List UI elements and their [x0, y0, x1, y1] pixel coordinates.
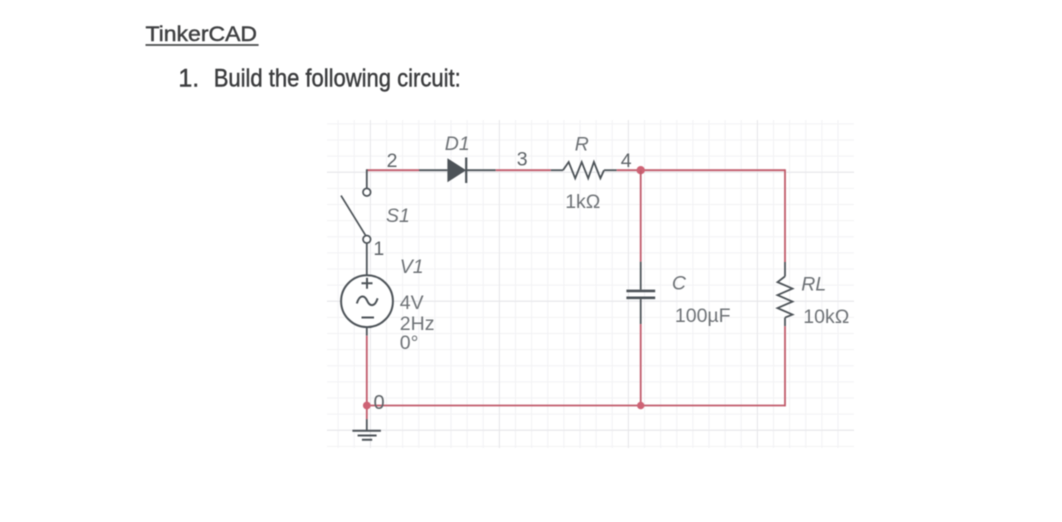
- svg-text:TinkerCAD: TinkerCAD: [146, 23, 258, 46]
- wire: red from node 4 down to capacitor: [640, 170, 642, 262]
- switch S1 lever: [341, 196, 366, 236]
- wire: corner stub down to switch top terminal: [366, 169, 368, 188]
- schematic grid background: [327, 120, 854, 448]
- switch S1 bottom terminal circle: [363, 236, 371, 244]
- wire: red below node 0: [366, 406, 368, 420]
- svg-text:100µF: 100µF: [675, 305, 731, 327]
- svg-text:2: 2: [387, 150, 398, 172]
- node 0 dot: [363, 402, 371, 410]
- capacitor C top plate: [626, 290, 655, 293]
- wire: red RL bottom to bottom rail corner: [784, 326, 786, 406]
- svg-text:10kΩ: 10kΩ: [803, 306, 849, 328]
- svg-text:R: R: [575, 133, 589, 155]
- resistor RL top lead: [784, 262, 786, 276]
- diode D1 right lead: [466, 169, 496, 171]
- diode D1 cathode bar: [465, 158, 467, 184]
- capacitor C top lead: [640, 262, 642, 290]
- svg-text:0: 0: [374, 392, 385, 414]
- resistor RL bottom lead: [784, 318, 786, 327]
- capacitor C bottom lead: [640, 299, 642, 324]
- diode D1 left lead: [419, 169, 447, 171]
- svg-text:C: C: [672, 273, 687, 295]
- svg-text:4: 4: [621, 150, 632, 172]
- document heading: TinkerCAD (underlined): [146, 23, 259, 46]
- svg-text:Build the following circuit:: Build the following circuit:: [214, 65, 461, 93]
- list item: 1. Build the following circuit:: [178, 65, 460, 93]
- svg-text:3: 3: [517, 148, 528, 170]
- svg-text:4V: 4V: [400, 292, 424, 314]
- svg-text:0°: 0°: [400, 332, 419, 354]
- voltage source V1 circle: [341, 275, 393, 327]
- V1 sine symbol: [357, 296, 378, 305]
- V1 minus sign: [362, 317, 375, 319]
- switch S1 top terminal circle: [363, 188, 371, 196]
- wire: red segment node 3: [496, 169, 551, 171]
- resistor RL zigzag: [778, 276, 793, 317]
- ground symbol: [352, 431, 381, 440]
- svg-text:RL: RL: [801, 274, 826, 296]
- wire: V1 bottom gray stub: [366, 327, 368, 336]
- svg-text:V1: V1: [400, 256, 424, 278]
- diode D1 triangle: [447, 158, 466, 182]
- wire: gray stub to ground: [366, 419, 368, 431]
- wire: red capacitor bottom to bottom rail: [640, 324, 642, 405]
- wire: red V1 bottom to node 0: [366, 336, 368, 406]
- svg-text:1: 1: [373, 238, 384, 260]
- wire: red top segment node2 (corner to diode anode lead): [367, 169, 419, 171]
- wire: red right branch vertical down: [784, 169, 786, 262]
- svg-text:1.: 1.: [178, 65, 199, 93]
- svg-text:S1: S1: [386, 205, 410, 227]
- svg-text:1kΩ: 1kΩ: [565, 191, 600, 213]
- bottom rail node dot under capacitor: [637, 402, 644, 409]
- capacitor C bottom plate: [626, 296, 655, 299]
- resistor R right lead: [604, 169, 617, 171]
- node 4 dot: [637, 166, 645, 174]
- wire: switch bottom terminal to V1 top: [366, 243, 368, 275]
- svg-text:D1: D1: [445, 133, 470, 155]
- wire: red bottom rail: [367, 405, 785, 407]
- resistor R zigzag: [563, 162, 604, 178]
- V1 plus sign: [362, 278, 373, 289]
- wire: red segment node 4 to right corner: [617, 169, 785, 171]
- resistor R left lead: [551, 169, 563, 171]
